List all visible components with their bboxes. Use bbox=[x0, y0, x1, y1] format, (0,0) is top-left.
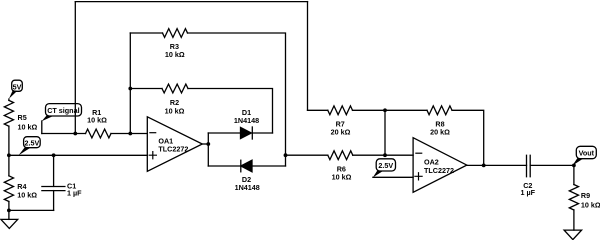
svg-text:1N4148: 1N4148 bbox=[234, 116, 259, 125]
wire 5V rail top bbox=[8, 99, 10, 100]
capacitor C2 plates bbox=[527, 155, 531, 176]
wire D1 anode lead bbox=[208, 132, 240, 134]
wire D2 cathode lead bbox=[208, 165, 241, 167]
wire R7 to R8 bbox=[353, 109, 428, 111]
svg-text:10 kΩ: 10 kΩ bbox=[165, 106, 185, 115]
svg-text:1 µF: 1 µF bbox=[67, 189, 82, 198]
svg-text:10 kΩ: 10 kΩ bbox=[581, 200, 600, 209]
wire C1 bottom to rail bbox=[9, 209, 54, 211]
svg-text:10 kΩ: 10 kΩ bbox=[332, 173, 352, 182]
ground left bbox=[1, 219, 18, 228]
node R4 bottom bbox=[7, 209, 11, 213]
node rectifier output bbox=[284, 153, 288, 157]
callout Vout bbox=[576, 146, 596, 158]
capacitor C1 bottom lead bbox=[53, 191, 55, 211]
resistor R4 bbox=[4, 176, 13, 202]
node OA2 output bbox=[482, 164, 486, 168]
resistor R7 bbox=[328, 106, 353, 115]
node C1 top bbox=[52, 153, 56, 157]
node R1/feedback junction bbox=[128, 132, 132, 136]
node CT signal junction bbox=[73, 132, 77, 136]
svg-text:R9: R9 bbox=[581, 191, 590, 200]
svg-text:10 kΩ: 10 kΩ bbox=[18, 122, 38, 131]
wire R2 right lead down to D1 cathode bbox=[188, 89, 273, 134]
wire R1 left lead bbox=[42, 133, 86, 135]
wire 2.5V to OA2 noninverting input bbox=[373, 176, 413, 178]
wire OA2 output to C2 bbox=[467, 164, 527, 166]
node R2/R3 junction bbox=[128, 87, 132, 91]
wire D1 cathode lead bbox=[252, 132, 272, 134]
node OA2 inverting bbox=[383, 153, 387, 157]
callout 5V bbox=[12, 80, 23, 91]
resistor R1 bbox=[86, 129, 112, 138]
svg-text:TLC2272: TLC2272 bbox=[424, 166, 454, 175]
resistor R6 bbox=[328, 151, 353, 160]
resistor R8 bbox=[427, 106, 452, 115]
svg-text:TLC2272: TLC2272 bbox=[158, 145, 188, 154]
node Vout bbox=[572, 164, 576, 168]
svg-text:1 µF: 1 µF bbox=[521, 188, 536, 197]
wire OA1 output to diode branch bbox=[202, 143, 208, 145]
callout 2.5V right bbox=[376, 159, 395, 171]
resistor R2 bbox=[162, 84, 188, 93]
wire R6 to OA2 inverting input bbox=[353, 154, 413, 156]
ground right bbox=[564, 230, 582, 240]
svg-text:5V: 5V bbox=[13, 82, 22, 91]
wire top outer from CT node to R7 branch bbox=[75, 1, 307, 3]
wire rectifier node to R6 bbox=[286, 154, 328, 156]
resistor R5 bbox=[4, 100, 13, 126]
wire R8 right lead down to OA2 output bbox=[452, 110, 484, 165]
svg-text:1N4148: 1N4148 bbox=[235, 183, 260, 192]
wire R1 to OA1 inverting input bbox=[111, 133, 147, 135]
wire R7 left lead bbox=[308, 109, 328, 111]
wire R9 to ground bbox=[573, 210, 575, 230]
diode D1 bbox=[241, 127, 252, 138]
svg-text:20 kΩ: 20 kΩ bbox=[331, 128, 351, 137]
capacitor C1 plates bbox=[42, 187, 65, 191]
callout CT signal bbox=[46, 104, 82, 116]
wire R2 left lead bbox=[130, 88, 162, 90]
node OA1 output bbox=[206, 142, 210, 146]
wire C2 to Vout node bbox=[530, 164, 574, 166]
svg-text:R5: R5 bbox=[18, 113, 27, 122]
callout 2.5V left bbox=[24, 137, 41, 148]
resistor R9 bbox=[569, 185, 578, 211]
wire R3 loop left lead bbox=[130, 32, 162, 34]
wire diode branch vertical bbox=[207, 133, 209, 166]
wire rail R5 to R4 bbox=[8, 126, 10, 176]
wire R4 to ground bbox=[8, 202, 10, 220]
wire CT signal drop bbox=[41, 121, 43, 134]
capacitor C1 top lead bbox=[53, 155, 55, 186]
diode D2 bbox=[241, 160, 252, 172]
wire inverting-node vertical bbox=[129, 33, 131, 134]
wire D2 anode lead bbox=[252, 165, 286, 167]
svg-text:R4: R4 bbox=[17, 182, 26, 191]
svg-text:CT signal: CT signal bbox=[47, 106, 79, 115]
op-amp OA2 bbox=[413, 138, 467, 193]
wire R7-R8 junction down to OA2 input wire bbox=[384, 110, 386, 155]
resistor R3 bbox=[163, 29, 188, 38]
svg-text:2.5V: 2.5V bbox=[25, 139, 40, 148]
wire Vout node to R9 bbox=[573, 165, 575, 184]
svg-text:10 kΩ: 10 kΩ bbox=[17, 191, 37, 200]
svg-text:10 kΩ: 10 kΩ bbox=[165, 50, 185, 59]
wire R3 right lead down to D2 wire bbox=[188, 33, 286, 166]
svg-text:2.5V: 2.5V bbox=[378, 161, 393, 170]
svg-text:20 kΩ: 20 kΩ bbox=[430, 128, 450, 137]
op-amp OA1 bbox=[147, 117, 202, 172]
wire right outer vertical bbox=[307, 2, 309, 111]
node 2.5V rail bbox=[7, 153, 11, 157]
svg-text:10 kΩ: 10 kΩ bbox=[87, 116, 107, 125]
node R7/R8 junction bbox=[383, 108, 387, 112]
wire left outer vertical bbox=[74, 2, 76, 134]
svg-text:Vout: Vout bbox=[579, 148, 595, 157]
wire 2.5V rail to OA1 noninverting input bbox=[9, 154, 147, 156]
